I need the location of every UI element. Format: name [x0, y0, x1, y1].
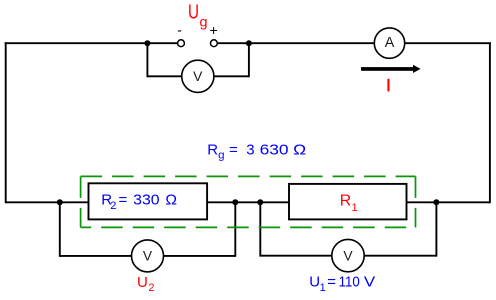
svg-text:R: R — [340, 193, 351, 210]
svg-text:Ω: Ω — [293, 141, 306, 158]
svg-text:=: = — [229, 141, 238, 158]
label Ug: source voltage — [188, 1, 208, 29]
svg-text:330: 330 — [133, 192, 159, 209]
node: junction middle between R2 R1 right — [257, 199, 263, 205]
voltmeter V bottom-left (U2) — [132, 240, 164, 272]
svg-text:g: g — [218, 150, 224, 162]
label I: current — [387, 79, 389, 92]
svg-text:R: R — [207, 141, 218, 158]
label: plus sign — [210, 22, 218, 38]
svg-text:U: U — [188, 1, 199, 23]
svg-text:3: 3 — [246, 141, 254, 158]
wire: top voltmeter left drop — [146, 43, 148, 77]
svg-text:2: 2 — [110, 200, 116, 212]
svg-text:g: g — [200, 14, 208, 29]
node: junction top right — [246, 40, 252, 46]
label: minus sign — [177, 22, 182, 38]
svg-text:V: V — [193, 69, 203, 84]
label U1 = 110 V — [309, 274, 375, 294]
equivalent-resistance dashed box (green) bottom side — [81, 226, 416, 228]
wire: U2 loop bottom horizontal — [60, 255, 236, 257]
svg-text:V: V — [143, 249, 153, 264]
equivalent-resistance dashed box (green) right side — [415, 176, 417, 227]
svg-text:V: V — [364, 274, 375, 291]
voltmeter V bottom-right (U1) — [332, 239, 364, 271]
ammeter A — [374, 28, 404, 58]
wire: left vertical — [5, 42, 7, 203]
label U2 — [137, 274, 155, 294]
wire: U1 loop bottom horizontal — [260, 255, 436, 257]
equivalent-resistance dashed box (green) top side — [81, 175, 416, 177]
equivalent-resistance dashed box (green) left side — [80, 176, 82, 227]
arrow: current direction — [361, 65, 421, 73]
svg-text:V: V — [343, 248, 353, 263]
terminal: positive source terminal — [211, 40, 218, 47]
node: junction middle right — [433, 199, 439, 205]
label Rg = 3 630 ohm — [207, 141, 306, 161]
resistor R2 box — [89, 183, 208, 219]
svg-text:110: 110 — [339, 274, 360, 291]
svg-text:Ω: Ω — [165, 192, 177, 209]
node: junction middle between R2 R1 left — [232, 199, 238, 205]
svg-text:-: - — [177, 22, 182, 38]
wire: middle horizontal — [6, 201, 490, 203]
wire: U2 loop right drop — [234, 202, 236, 256]
svg-text:A: A — [385, 35, 395, 51]
svg-text:1: 1 — [320, 282, 326, 294]
node: junction top left — [144, 40, 150, 46]
svg-text:U: U — [137, 274, 148, 291]
wire: U1 loop left drop — [259, 202, 261, 256]
voltmeter V top (across source) — [182, 60, 214, 92]
terminal: negative source terminal — [178, 40, 185, 47]
resistor R1 box — [289, 184, 407, 220]
svg-text:+: + — [210, 22, 218, 38]
wire: top horizontal right segment — [217, 42, 491, 44]
wire: top voltmeter right drop — [248, 43, 250, 77]
wire: top voltmeter horizontal — [147, 75, 249, 77]
wire: U1 loop right drop — [435, 202, 437, 256]
svg-text:U: U — [309, 274, 320, 291]
svg-text:2: 2 — [148, 282, 154, 294]
svg-text:=: = — [119, 192, 128, 209]
node: junction middle far left — [57, 199, 63, 205]
svg-text:=: = — [327, 274, 336, 291]
svg-text:630: 630 — [260, 141, 289, 158]
wire: top horizontal left segment — [5, 42, 178, 44]
wire: U2 loop left drop — [59, 202, 61, 256]
svg-text:1: 1 — [352, 202, 358, 214]
wire: right vertical — [489, 42, 491, 203]
